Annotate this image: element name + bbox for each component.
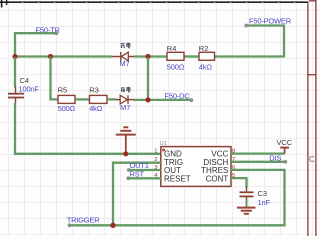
label "charge" (CJK strokes drawn as paths) [121, 43, 131, 48]
svg-text:100nF: 100nF [19, 85, 40, 94]
net label DIS [269, 154, 287, 164]
wire main top rail y=56.5 [15, 55, 112, 57]
wire [184, 55, 199, 57]
wire [134, 55, 167, 57]
svg-text:500Ω: 500Ω [167, 62, 185, 71]
svg-text:RST: RST [130, 169, 145, 178]
wire C4 to GND rail [15, 103, 161, 154]
wire diode D2 to F50-DC [134, 99, 192, 101]
junction node at (50.5,56.5) [48, 54, 53, 59]
junction node at (15,56.5) [12, 54, 17, 59]
capacitor C4 [8, 58, 39, 104]
svg-text:DIS: DIS [269, 154, 281, 163]
ground symbol (below C3) [237, 208, 256, 214]
wire branch to R5 row [51, 57, 59, 100]
net label F50-POWER [244, 16, 291, 27]
svg-text:M7: M7 [120, 103, 130, 112]
wire pin 5 CONT to C3 [231, 178, 247, 187]
power symbol VCC [277, 138, 293, 154]
svg-text:TRIGGER: TRIGGER [67, 215, 101, 224]
svg-text:C3: C3 [258, 189, 268, 198]
net label RST [126, 169, 144, 180]
resistor R5 [58, 86, 76, 113]
wire RST to pin 4 [128, 177, 161, 179]
net label F50-TR [36, 26, 61, 36]
svg-text:R2: R2 [199, 44, 209, 53]
net label TRIGGER [67, 215, 101, 227]
wire F50-POWER [247, 26, 285, 58]
svg-text:1: 1 [154, 149, 157, 155]
junction node at (148,56.5) [145, 54, 150, 59]
svg-text:500Ω: 500Ω [58, 104, 76, 113]
label "discharge" (CJK strokes drawn as paths) [121, 87, 130, 92]
svg-text:C: C [309, 155, 315, 164]
op-amp U1 (555 timer IC body) [154, 141, 235, 186]
svg-text:VCC: VCC [277, 138, 293, 147]
junction node at (113,225.3) [110, 223, 115, 228]
wire F50-TR to main rail [15, 33, 56, 56]
wire R5 to R3 [75, 98, 90, 100]
svg-text:4kΩ: 4kΩ [89, 104, 103, 113]
svg-text:R5: R5 [58, 86, 68, 95]
wire R2 to F50-POWER riser [215, 55, 285, 57]
svg-text:R4: R4 [167, 44, 177, 53]
resistor R4 [167, 44, 185, 71]
wire vertical joining rails [147, 58, 149, 100]
wire TRIG net vertical [113, 163, 161, 226]
net label OUT1 [127, 161, 149, 172]
svg-text:U1: U1 [160, 141, 167, 147]
svg-text:1nF: 1nF [258, 198, 271, 207]
diode D1 M7 (charge, pointing left) [112, 43, 134, 68]
ground symbol (flipped, on GND rail) [116, 127, 136, 153]
sheet edge tick marks [23, 2, 295, 4]
svg-text:4kΩ: 4kΩ [199, 62, 213, 71]
resistor R3 [89, 86, 107, 113]
wire pin 8 to VCC [231, 152, 285, 154]
junction node at (148,99.9) [145, 97, 150, 102]
sheet right border frame [308, 0, 316, 236]
junction node at (125.8,153.8) [123, 151, 128, 156]
wire TRIGGER rail to THRES [70, 170, 285, 225]
svg-text:R3: R3 [89, 86, 99, 95]
wire OUT1 to pin 3 [129, 169, 161, 171]
svg-text:F50-DC: F50-DC [165, 91, 191, 100]
resistor R2 [199, 44, 215, 71]
svg-text:RESET: RESET [164, 175, 191, 184]
svg-text:F50-POWER: F50-POWER [249, 16, 292, 25]
net label F50-DC [165, 91, 194, 102]
svg-text:CONT: CONT [206, 175, 229, 184]
diode D2 M7 (discharge, pointing right) [116, 87, 134, 112]
wire R3 to diode D2 [107, 98, 116, 100]
wire pin 7 DIS [231, 161, 285, 163]
sheet top edge line [0, 0, 309, 8]
svg-text:M7: M7 [119, 59, 129, 68]
capacitor C3 [240, 187, 271, 207]
